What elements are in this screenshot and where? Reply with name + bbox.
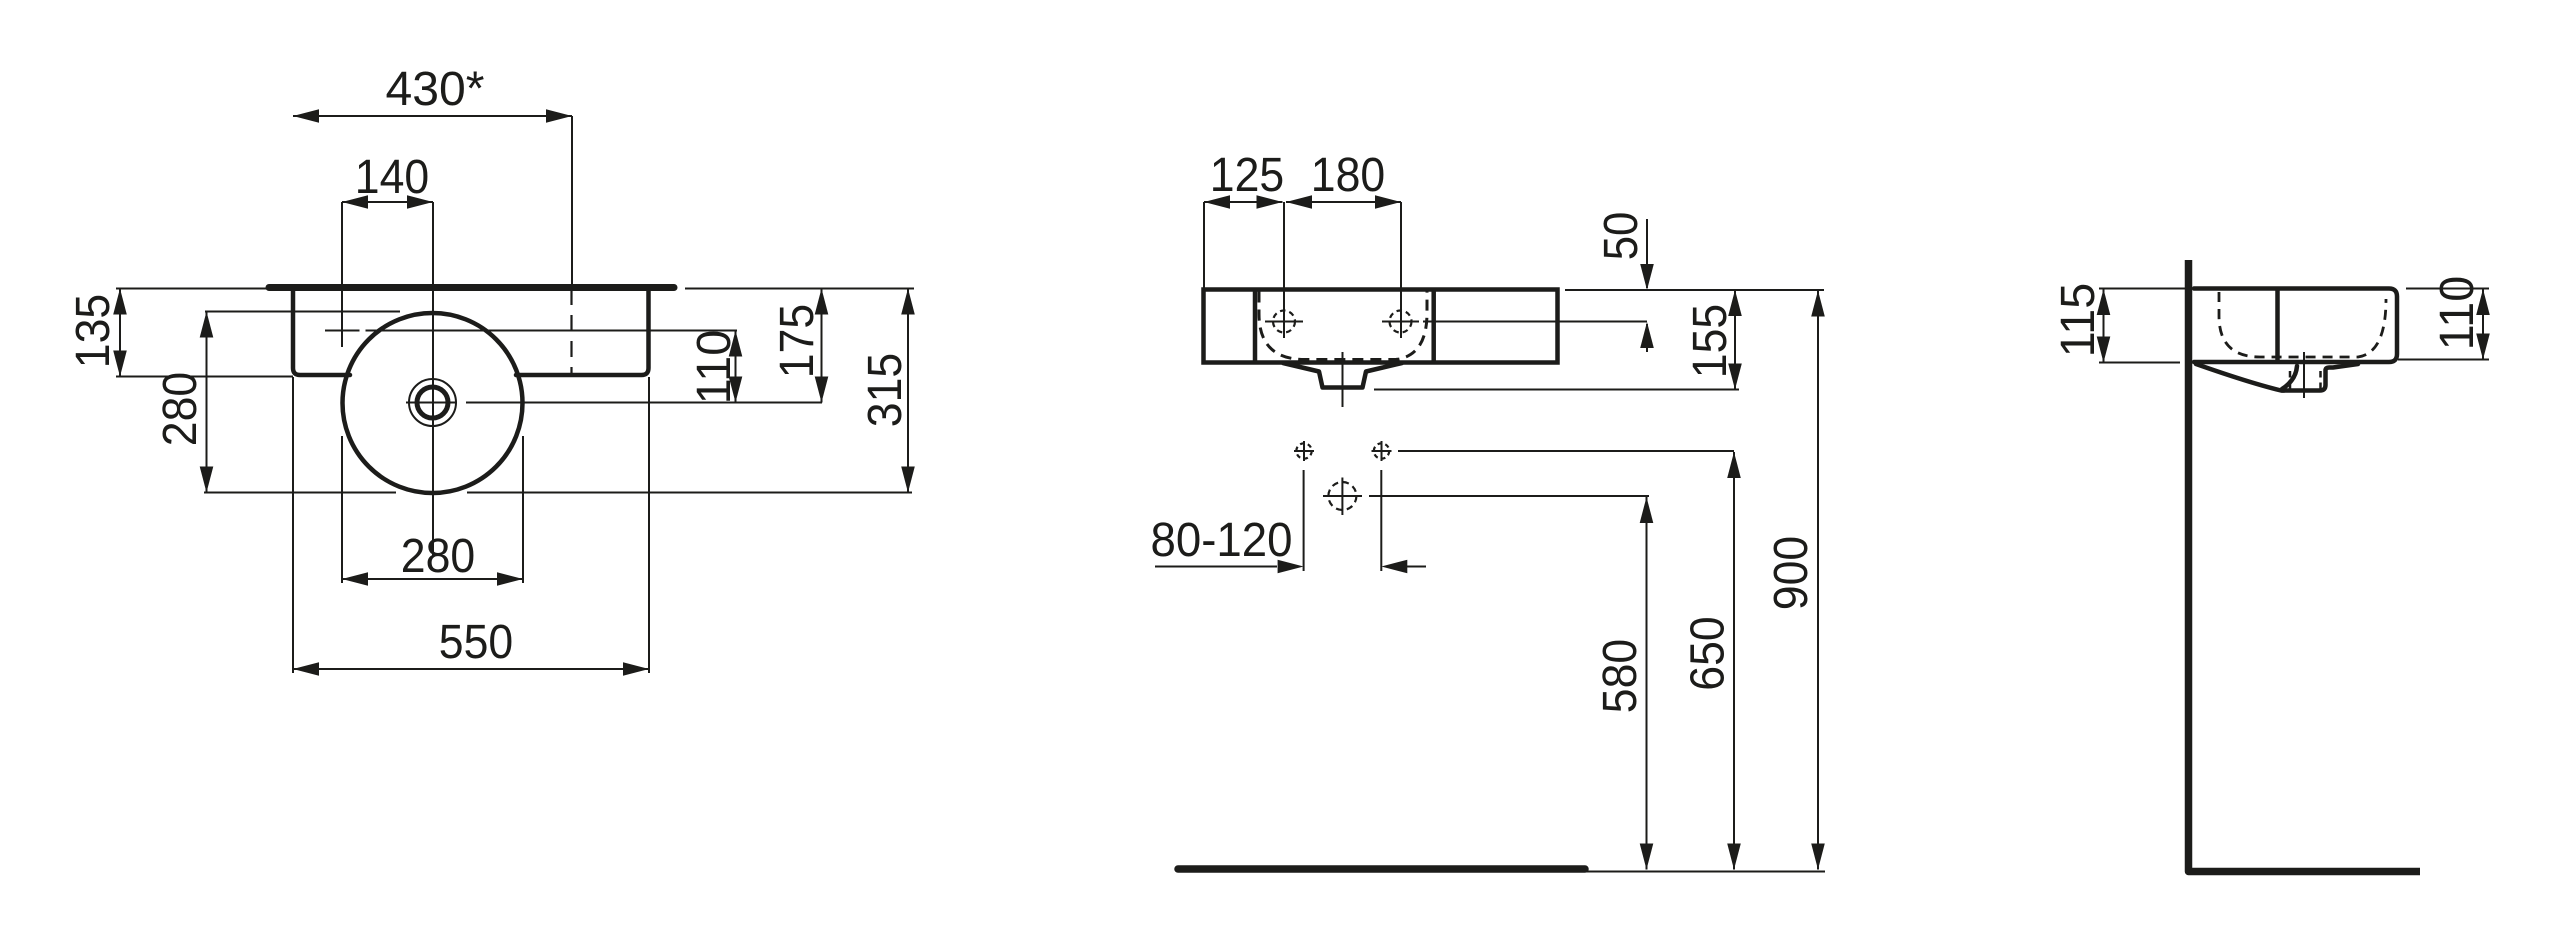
svg-text:280: 280: [153, 372, 207, 446]
svg-text:650: 650: [1681, 616, 1735, 690]
svg-text:550: 550: [439, 615, 513, 669]
svg-text:430*: 430*: [386, 62, 485, 116]
svg-text:125: 125: [1210, 148, 1284, 202]
svg-text:315: 315: [858, 353, 912, 427]
svg-text:80-120: 80-120: [1151, 513, 1293, 567]
svg-text:50: 50: [1594, 212, 1648, 261]
svg-text:155: 155: [1683, 304, 1737, 378]
svg-text:180: 180: [1311, 148, 1385, 202]
svg-text:280: 280: [401, 529, 475, 583]
svg-text:110: 110: [2430, 276, 2484, 350]
svg-text:900: 900: [1764, 536, 1818, 610]
svg-text:110: 110: [687, 330, 741, 404]
svg-text:135: 135: [66, 294, 120, 368]
svg-text:115: 115: [2051, 283, 2105, 357]
svg-text:140: 140: [355, 150, 429, 204]
svg-text:175: 175: [770, 304, 824, 378]
svg-text:580: 580: [1593, 639, 1647, 713]
